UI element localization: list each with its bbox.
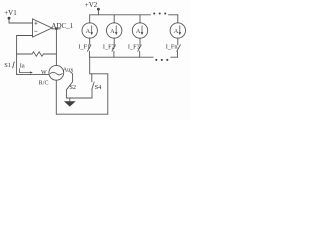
node +V1 terminal dot [8,17,11,20]
switch S4 lower wire [91,89,93,98]
wire branch2 top [113,15,115,23]
node ADC_1 junction dot [55,28,58,31]
svg-text:I_F3: I_F3 [128,43,140,50]
wire op-amp output [52,28,60,30]
svg-text:I_F2: I_F2 [103,43,115,50]
switch Fn blade [177,45,181,52]
source Aux sine mark [50,72,62,75]
switch S4 upper wire [91,74,93,82]
op-amp plus input mark [35,22,38,25]
wire bottom rail [56,113,108,115]
wire Aux to S2 hook [70,72,72,75]
switch S2 lower wire [65,90,67,98]
wire branch3 top [139,15,141,23]
svg-text:I_F1: I_F1 [78,43,90,50]
wire feedback left vertical [16,36,18,75]
source A1 circle [82,23,97,38]
wire branch-n below circle [177,38,179,45]
wire branch1 below circle [89,38,91,45]
wire branch2 below circle [113,38,115,45]
svg-text:S1: S1 [4,62,11,69]
wire branch2 to bus [113,51,115,57]
svg-text:W: W [41,70,47,76]
wire branch-n top [177,15,179,23]
op-amp U1 [33,19,53,37]
current source I_F1 branch [78,15,97,57]
svg-text:S4: S4 [95,84,103,91]
wire branch3 below circle [139,38,141,45]
svg-text:I_Fn: I_Fn [166,43,179,50]
wire branch1 to bus [88,51,90,57]
switch F1 blade [88,45,91,51]
svg-text:+V2: +V2 [85,1,98,9]
current source I_F2 branch [103,15,122,57]
source Aux circle [49,65,64,80]
svg-text:ADC_1: ADC_1 [51,22,73,30]
node top bus dots [153,12,155,14]
svg-text:A: A [174,28,179,35]
svg-text:Ia: Ia [20,62,25,69]
ground [69,98,71,101]
wire right rail [107,74,109,114]
switch S4 blade [92,82,94,89]
wire inverting input [17,35,33,37]
switch F2 blade [112,45,115,51]
switch S2 blade [66,83,72,90]
wire Aux bottom to bottom rail [55,80,57,114]
wire right rail top to S4 junction [90,73,108,75]
op-amp minus input mark [35,30,38,32]
node lower bus dots [155,59,157,61]
node +V2 terminal dot [97,8,100,11]
wire F-bus left drop [89,57,91,74]
wire branch-n to bus [177,51,179,57]
node Ia direction arrow [19,69,30,73]
wire branch1 top [89,15,91,23]
wire bottom bus S2-S4 [66,97,92,99]
wire S1 corner to Aux source [17,74,49,76]
source A3 circle [132,23,147,38]
wire +V2 stub [97,9,99,15]
switch S2 upper wire [72,75,74,82]
svg-text:+V1: +V1 [4,9,17,17]
svg-text:Aux: Aux [63,66,75,73]
wire feedback bottom left [17,53,32,55]
current source I_F3 branch [128,15,148,57]
switch F3 blade [138,45,141,51]
wire top bus right segment [169,14,178,16]
svg-text:A: A [136,28,141,35]
wire feedback bottom right [44,53,57,55]
svg-text:A: A [86,28,91,35]
current source I_Fn branch [166,15,186,57]
wire top bus left segment [90,14,151,16]
svg-text:R/C: R/C [39,80,49,86]
svg-text:A: A [110,28,115,35]
wire +V1 to op-amp noninverting input [9,18,33,23]
wire branch3 to bus [139,51,141,57]
wire output down to Aux source [55,29,57,66]
switch S1 blade [13,62,15,68]
wire lower F bus left segment [90,56,154,58]
wire lower F bus right segment [171,56,178,58]
source An circle [170,23,185,38]
source A2 circle [107,23,122,38]
svg-text:S2: S2 [69,84,76,91]
resistor R1 [32,52,44,56]
